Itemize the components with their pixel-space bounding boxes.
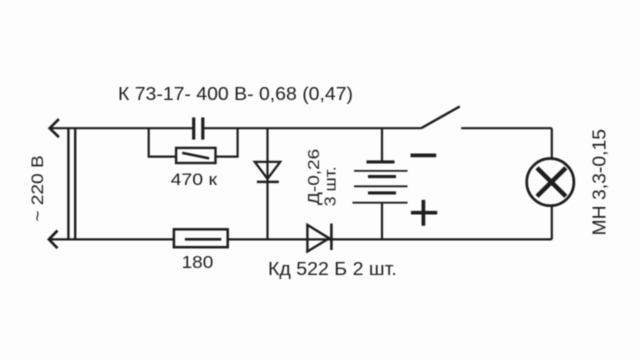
wire: top rail from switch to right corner: [461, 127, 552, 129]
battery GB1: negative short bar 1: [367, 160, 395, 163]
diode VD1: cathode bar: [257, 181, 279, 184]
wire: right vertical from lamp to bottom rail: [551, 207, 553, 240]
capacitor C1: left plate: [192, 117, 195, 139]
svg-text:Кд 522 Б 2 шт.: Кд 522 Б 2 шт.: [268, 259, 397, 279]
diode VD2: cathode bar: [330, 224, 333, 251]
svg-text:МН 3,3-0,15: МН 3,3-0,15: [590, 129, 610, 236]
wire: mains twin-lead vertical 2: [74, 128, 76, 239]
capacitor C1: right plate: [201, 117, 204, 139]
resistor R2 180: body rectangle: [174, 229, 228, 247]
battery GB1: negative short bar 3: [368, 191, 396, 194]
polarity mark: plus: [411, 200, 437, 226]
wire: right side of parallel resistor loop: [216, 128, 238, 156]
svg-text:Д-0,26: Д-0,26: [306, 149, 323, 205]
svg-text:3 шт.: 3 шт.: [323, 166, 340, 206]
wire: battery top lead: [381, 128, 383, 161]
resistor R2 180: inner bar: [185, 238, 221, 241]
diode VD1: triangle pointing down: [255, 162, 280, 179]
arrow: mains lead top (points left): [50, 119, 59, 137]
wire: bottom rail from arrow to resistor 180: [49, 238, 174, 240]
wire: bottom rail from lamp to diode VD2: [331, 238, 551, 240]
svg-text:К 73-17- 400 В- 0,68 (0,47): К 73-17- 400 В- 0,68 (0,47): [118, 84, 353, 104]
battery GB1: positive long plate 2: [354, 185, 408, 187]
wire: right vertical down to lamp: [551, 128, 553, 157]
resistor R1 470k: body rectangle: [176, 148, 215, 163]
diode VD2: triangle pointing right: [307, 225, 329, 252]
svg-text:470 к: 470 к: [171, 170, 218, 189]
battery GB1: positive long plate 3: [353, 202, 408, 204]
wire: battery bottom lead: [381, 203, 383, 240]
battery GB1: negative short bar 2: [368, 175, 396, 178]
svg-text:180: 180: [182, 252, 214, 272]
wire: bottom rail from resistor 180 to diode VD2: [228, 238, 308, 240]
wire: top rail from arrow to capacitor left plate: [50, 127, 193, 129]
switch S1: lever (open): [421, 106, 460, 128]
wire: middle vertical branch (diode VD1): [266, 128, 268, 239]
battery GB1: positive long plate 1: [354, 170, 408, 172]
svg-text:~ 220 В: ~ 220 В: [28, 155, 47, 222]
wire: top rail from capacitor right plate to switch contact: [204, 127, 421, 129]
resistor R1 470k: diagonal power mark: [182, 153, 209, 159]
lamp HL1: X filament mark: [537, 168, 566, 196]
arrow: mains lead bottom (points left): [49, 231, 58, 249]
wire: mains twin-lead vertical 1: [67, 128, 69, 239]
polarity mark: minus: [411, 154, 437, 158]
wire: through diode VD2: [307, 238, 331, 240]
lamp HL1: circle: [527, 159, 574, 206]
wire: left drop of parallel resistor loop: [149, 128, 176, 156]
